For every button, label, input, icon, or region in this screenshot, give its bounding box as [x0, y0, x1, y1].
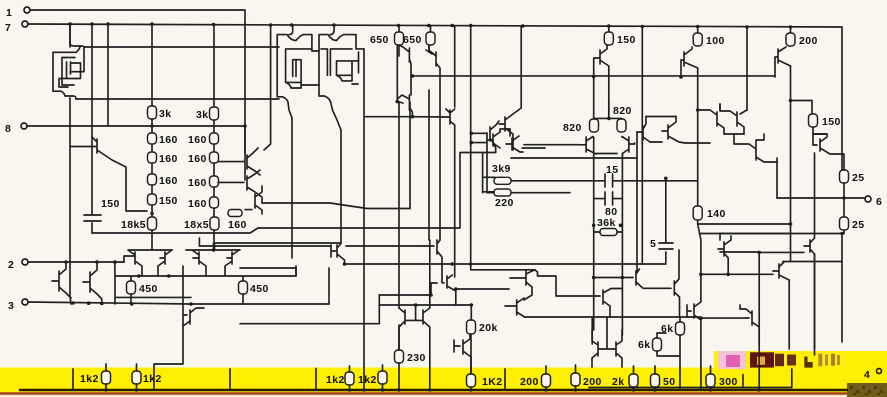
- wire y228 bus: [92, 153, 483, 234]
- wire 3k9 block riser: [486, 133, 488, 193]
- wire K collector riser: [636, 132, 637, 274]
- svg-text:1k2: 1k2: [143, 373, 162, 385]
- transistor Q30: [186, 250, 240, 276]
- transistor Q50: [773, 262, 789, 350]
- transistor Q8 (650 #1 chain lower): [397, 95, 412, 117]
- wire pin3: [28, 302, 329, 304]
- svg-text:3k: 3k: [196, 109, 208, 121]
- wire 20k top: [470, 305, 472, 320]
- pin 2 terminal: [22, 259, 28, 265]
- wire vertical x410 chain riser: [409, 102, 411, 209]
- wire 1k2e leads: [470, 387, 472, 390]
- pin 8 terminal: [21, 123, 27, 129]
- wire y47 left: [84, 46, 279, 48]
- wire y99 left: [76, 98, 279, 100]
- resistor 150 c1d: [148, 194, 157, 205]
- resistor 3k9: [494, 177, 511, 184]
- dark scribble 2: [775, 354, 784, 367]
- wire y318.1: [701, 317, 746, 319]
- svg-text:6: 6: [876, 196, 882, 208]
- svg-text:4: 4: [864, 369, 870, 381]
- wire 200a leads: [545, 366, 547, 390]
- wire vertical x429 chain: [428, 45, 430, 240]
- resistor 2k: [629, 374, 638, 387]
- transistor Q32 (pin2 buffer): [52, 262, 71, 298]
- wire 820 emitter bus: [596, 154, 622, 181]
- wire vertical x620: [621, 181, 623, 335]
- wire pin1 to vertical: [30, 10, 245, 153]
- wire resistor top leads: [70, 24, 791, 106]
- resistor 100: [693, 33, 702, 46]
- wire mirror emitter bus: [262, 203, 410, 209]
- resistor 3k #2: [210, 107, 219, 120]
- svg-text:18x5: 18x5: [184, 219, 209, 231]
- node dot y252: [757, 251, 761, 255]
- svg-text:2k: 2k: [612, 376, 624, 388]
- wire 3k9 leads: [483, 153, 496, 193]
- node dots misc: [150, 74, 846, 266]
- svg-text:220: 220: [495, 197, 514, 209]
- svg-text:25: 25: [852, 172, 864, 184]
- transistor Q16 (820 #2 right): [622, 137, 635, 157]
- wire 300 leads: [710, 366, 712, 390]
- wire col2: [213, 25, 216, 250]
- transistor pair Q45/Q46 bottom mid: [592, 317, 622, 367]
- svg-text:150: 150: [617, 34, 636, 46]
- wire vertical x108: [107, 24, 109, 126]
- transistor pair Q1/Q2 left maze: [53, 43, 84, 99]
- wire vertical x777 output riser: [776, 158, 778, 198]
- wire 1k2a leads: [105, 364, 107, 390]
- orange tick inside scribble: [757, 357, 765, 365]
- transistor Q39 (near 220): [454, 334, 471, 374]
- svg-text:650: 650: [370, 34, 389, 46]
- wire 50 leads: [654, 366, 656, 390]
- wire y252: [720, 251, 759, 253]
- wire vertical x471: [471, 26, 535, 270]
- capacitor 15: [605, 174, 613, 187]
- wire vertical x842 lower: [841, 234, 843, 343]
- transistor Q47: [718, 234, 731, 275]
- resistor 230: [395, 350, 404, 363]
- transistor Q17 (I): [637, 117, 662, 143]
- transistor Q44b: [687, 274, 701, 390]
- pin 4 terminal: [877, 369, 882, 374]
- wire 140 bottom to right: [698, 223, 791, 225]
- svg-text:36k: 36k: [597, 217, 616, 229]
- node dot y318: [699, 316, 703, 320]
- transistor Q33 (pin3 buffer): [83, 262, 102, 304]
- wire vertical x399 chain: [398, 45, 400, 308]
- wire 150 top link: [826, 133, 827, 135]
- wire pin6: [777, 197, 865, 199]
- capacitor 150 left: [84, 215, 101, 221]
- transistor Q24: [70, 137, 147, 211]
- wire box around 300: [743, 369, 792, 388]
- svg-text:160: 160: [159, 175, 178, 187]
- transistor pair Q5/Q6 mid maze right: [319, 26, 364, 130]
- svg-text:3: 3: [8, 300, 14, 312]
- wire y158 to 820 block: [511, 157, 637, 159]
- resistor 220 mid: [494, 189, 511, 196]
- resistor 1k2 e: [467, 374, 476, 387]
- resistor 1k2 c: [345, 372, 354, 385]
- svg-text:100: 100: [706, 35, 725, 47]
- transistor Q23 (150 right chain): [813, 134, 844, 170]
- transistor Q22: [734, 134, 777, 162]
- yellow highlighter raised patch right: [714, 351, 887, 369]
- wire vertical x697: [698, 72, 701, 274]
- svg-text:200: 200: [799, 35, 818, 47]
- resistor 3k #1: [148, 106, 157, 119]
- wire vertical x758: [758, 252, 760, 390]
- wire col1: [151, 24, 153, 249]
- wire vertical x452: [444, 26, 455, 277]
- wire box under 2k/50: [589, 387, 792, 389]
- transistor QE: [471, 121, 499, 153]
- olive block texture dots: [850, 386, 883, 395]
- transistor Q36 (x183 riser): [154, 266, 204, 390]
- wire vertical x666: [665, 178, 667, 264]
- transistor Q15 (820 #1 left): [580, 137, 596, 155]
- wire y180 cap bus: [511, 180, 698, 182]
- resistor 1k2 a: [102, 371, 111, 384]
- wire vertical x747: [746, 27, 748, 110]
- resistor 36k horizontal: [600, 229, 617, 236]
- wire y295: [379, 294, 431, 296]
- dark maroon scribble 1: [750, 352, 774, 367]
- svg-text:1k2: 1k2: [80, 373, 99, 385]
- wire pin8: [27, 125, 245, 127]
- svg-text:300: 300: [719, 376, 738, 388]
- wire vertical x341: [340, 130, 342, 243]
- svg-text:200: 200: [583, 376, 602, 388]
- svg-text:150: 150: [822, 116, 841, 128]
- transistor Q10 (150 chain): [594, 45, 609, 112]
- node dots pin3 wire: [64, 260, 193, 306]
- resistor 1k2 d: [378, 371, 387, 384]
- pin 1 terminal: [24, 7, 30, 13]
- svg-text:15: 15: [606, 164, 618, 176]
- transistor Q14: [506, 129, 523, 152]
- bracket mark: [804, 357, 812, 368]
- red underline: [0, 392, 887, 394]
- svg-text:650: 650: [403, 34, 422, 46]
- node dots on VEE rail: [104, 388, 761, 392]
- resistor 160 c2b: [210, 152, 219, 163]
- wire y289: [456, 288, 509, 290]
- wire 2k leads: [633, 366, 635, 390]
- resistor 450 #1: [127, 281, 136, 294]
- wire 230 leads: [398, 325, 400, 389]
- wire vertical x593: [593, 77, 595, 330]
- transistor pair Q3/Q4 mid maze left: [277, 26, 319, 118]
- svg-text:160: 160: [159, 153, 178, 165]
- svg-text:160: 160: [188, 177, 207, 189]
- svg-text:1: 1: [6, 7, 12, 19]
- wire vertical x70: [70, 24, 71, 304]
- resistor 25 #1: [840, 170, 849, 183]
- VCC top rail: [28, 24, 842, 170]
- resistor 300: [706, 374, 715, 387]
- transistor Q27: [245, 186, 262, 214]
- svg-text:140: 140: [707, 208, 726, 220]
- wire 220 lead: [487, 192, 494, 194]
- node dots y274: [699, 273, 730, 277]
- transistor Q12 (200 chain): [775, 47, 791, 77]
- transistor Q43b (L): [668, 250, 680, 317]
- resistor 160 c1b: [148, 152, 157, 163]
- svg-text:2: 2: [8, 259, 14, 271]
- wire vertical x245 lower: [244, 126, 246, 180]
- resistor 650 #1: [395, 32, 404, 45]
- resistor 6k #1: [676, 322, 685, 335]
- transistor Q9 (650 #2 chain): [426, 45, 440, 240]
- wire 1k2c leads: [349, 366, 351, 390]
- svg-text:450: 450: [139, 283, 158, 295]
- transistor Q48: [804, 234, 815, 350]
- wire 820 tops: [594, 101, 622, 119]
- transistor Q18 (J): [662, 117, 710, 144]
- transistor Q25: [218, 148, 260, 175]
- transistor Q42: [596, 289, 622, 318]
- svg-text:20k: 20k: [479, 322, 498, 334]
- wire pin2: [28, 261, 124, 263]
- wire 1k2b leads: [136, 364, 138, 390]
- wire y100 output right: [791, 101, 813, 115]
- wire vertical x814: [814, 153, 816, 355]
- svg-text:50: 50: [663, 376, 675, 388]
- transistor QF: [499, 26, 521, 150]
- transistor Q35: [424, 240, 456, 305]
- svg-text:25: 25: [852, 219, 864, 231]
- pin 3 terminal: [22, 299, 28, 305]
- pin 6 terminal: [865, 196, 871, 202]
- yellow highlighter band: [0, 368, 887, 394]
- node dots y277: [592, 276, 624, 280]
- resistor 20k: [467, 320, 476, 334]
- transistor Q34: [331, 244, 345, 265]
- svg-text:3k: 3k: [159, 108, 171, 120]
- wire vertical x642: [641, 27, 643, 264]
- wire y116 under 650: [364, 116, 444, 118]
- wire 25 column: [843, 183, 845, 234]
- resistor 160 c1a: [148, 133, 157, 144]
- resistor 25 #2: [840, 217, 849, 230]
- resistor 160 c2a: [210, 133, 219, 144]
- wire y146 to 820 block: [524, 144, 580, 146]
- transistor Q26: [218, 170, 262, 203]
- resistor 820 #1: [590, 119, 599, 132]
- svg-text:1k2: 1k2: [326, 374, 345, 386]
- wire y305: [379, 304, 471, 306]
- wire y323.7: [240, 295, 379, 324]
- resistor 450 #2: [239, 281, 248, 294]
- wire 150 bottom: [813, 127, 826, 134]
- wire y274.3: [701, 273, 773, 275]
- resistor 1k2 b: [132, 371, 141, 384]
- wire tick in band x73: [72, 369, 74, 390]
- wire vertical x292: [291, 118, 293, 258]
- transistor Q40: [510, 270, 535, 300]
- transistor Q37 Q38 (diff pair mid): [399, 240, 430, 390]
- wire 200b leads: [575, 365, 577, 390]
- wire pin2 to box corner: [114, 262, 116, 276]
- node dot x697 y110: [696, 108, 700, 112]
- transistor Q20: [720, 104, 747, 134]
- svg-text:450: 450: [250, 283, 269, 295]
- wire y277.5: [594, 277, 623, 279]
- pin 7 terminal: [22, 21, 28, 27]
- wire input box: [115, 266, 296, 304]
- pink highlight patch: [718, 351, 746, 369]
- faint brown strokes on yellow: [818, 354, 822, 367]
- resistor 160 horizontal: [228, 210, 242, 217]
- node dots mid-bottom: [343, 262, 473, 307]
- svg-text:160: 160: [188, 153, 207, 165]
- resistor 160 c1c: [148, 174, 157, 185]
- transistor Q49: [740, 305, 759, 345]
- resistor 18k5 #1: [148, 217, 157, 230]
- wire y233.5 cluster top: [720, 233, 842, 235]
- wire tick in band x230: [229, 369, 231, 390]
- node dot x842: [840, 232, 844, 236]
- node dot input: [212, 248, 216, 252]
- svg-text:1K2: 1K2: [482, 376, 502, 388]
- capacitor 80: [605, 192, 613, 205]
- resistor 200 a: [542, 374, 551, 387]
- wire y76 bus: [411, 75, 775, 77]
- olive block bottom right corner: [847, 383, 887, 397]
- svg-text:160: 160: [159, 134, 178, 146]
- wire y192 cap bus: [511, 193, 622, 199]
- svg-text:160: 160: [188, 198, 207, 210]
- wire vertical x790: [790, 67, 792, 262]
- resistor 650 #2: [426, 32, 435, 45]
- node rail dots: [68, 22, 792, 29]
- wire 1k2d leads: [382, 365, 384, 390]
- wire y233 output cluster top: [700, 233, 791, 235]
- svg-text:150: 150: [159, 195, 178, 207]
- transistor Q21: [698, 104, 744, 134]
- wire y264 bus: [345, 263, 666, 265]
- transistor Q29: [158, 250, 172, 276]
- wire tick in band x505: [504, 369, 506, 390]
- wire y243 bus: [215, 242, 342, 244]
- svg-text:820: 820: [563, 122, 582, 134]
- magenta marks: [726, 355, 740, 367]
- transistor Q7 (650 #1 chain upper): [397, 45, 411, 102]
- svg-text:5: 5: [650, 238, 656, 250]
- wire 6k links: [657, 317, 680, 390]
- svg-text:160: 160: [228, 219, 247, 231]
- wire vertical x270: [264, 26, 271, 150]
- svg-text:3k9: 3k9: [492, 163, 511, 175]
- resistor 18k5 #2: [210, 217, 219, 230]
- resistor 6k #2: [653, 338, 662, 351]
- svg-text:150: 150: [101, 198, 120, 210]
- svg-text:230: 230: [407, 352, 426, 364]
- VEE rail in yellow band: [20, 389, 847, 392]
- transistor Q28: [124, 250, 172, 276]
- capacitor 5: [659, 243, 673, 249]
- svg-text:6k: 6k: [638, 339, 650, 351]
- svg-text:1k2: 1k2: [358, 374, 377, 386]
- resistor 200 b: [571, 373, 580, 386]
- svg-text:160: 160: [188, 134, 207, 146]
- svg-text:820: 820: [613, 105, 632, 117]
- wire 36k leads: [594, 231, 623, 233]
- transistor Q41: [505, 298, 525, 317]
- wire tick in band x316: [315, 369, 317, 391]
- wire y261.5: [783, 261, 842, 263]
- wire y148 cluster out: [522, 147, 545, 149]
- transistor Q43 (K): [622, 269, 668, 288]
- resistor 150 top: [604, 32, 613, 45]
- resistor 200 top: [786, 33, 795, 46]
- dark scribble 3: [787, 355, 796, 366]
- wire y268 box top: [240, 268, 329, 304]
- resistor 150 right: [809, 114, 818, 127]
- resistor 160 c2d: [210, 197, 219, 208]
- wire y317: [525, 316, 700, 318]
- resistor 160 c2c: [210, 176, 219, 187]
- wire y269.8 extension: [535, 270, 596, 296]
- wire y252.4: [759, 251, 804, 253]
- wire 20k leads: [470, 334, 472, 374]
- svg-text:200: 200: [520, 376, 539, 388]
- wire vertical x363: [363, 49, 365, 390]
- wire vertical x92: [91, 24, 93, 233]
- svg-text:7: 7: [5, 22, 11, 34]
- transistor Q13: [487, 129, 510, 148]
- resistor 50: [651, 374, 660, 387]
- wire y246 bus: [199, 238, 424, 246]
- svg-text:8: 8: [5, 123, 11, 135]
- transistor Q11 (100 chain): [681, 47, 698, 77]
- svg-text:18k5: 18k5: [121, 219, 146, 231]
- transistor Q31: [214, 243, 240, 276]
- node dot x471 y133: [470, 132, 474, 136]
- resistor 820 #2: [617, 119, 626, 132]
- resistor 140: [693, 206, 702, 220]
- wire I/J collector bus: [646, 116, 676, 118]
- pale strip under band: [0, 393, 887, 397]
